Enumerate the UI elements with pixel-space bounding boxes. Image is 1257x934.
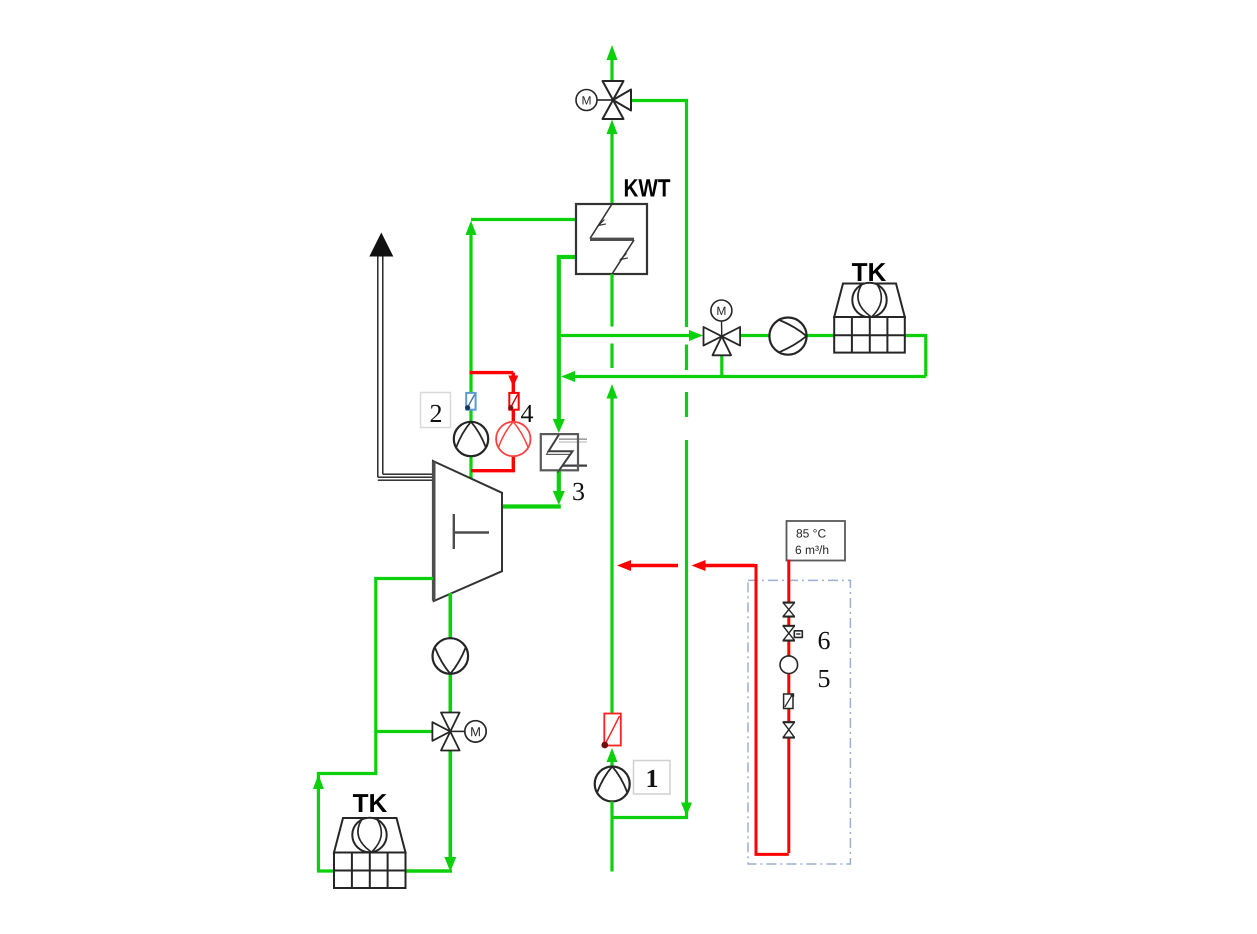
arrow up on TK-left riser [313, 775, 324, 790]
strainer on red line [784, 693, 795, 708]
wire: right valve to pump to tower TK right [739, 334, 770, 337]
cooling tower TK right [834, 283, 905, 353]
wire: green supply up from top valve with arrow [607, 45, 618, 82]
wire: green arrow up into sensor from pump 1 [607, 748, 618, 766]
svg-text:85 °C: 85 °C [796, 527, 826, 541]
shut-off valve top (red line) [783, 603, 795, 617]
shut-off valve bottom (red line) [783, 722, 795, 738]
svg-text:1: 1 [645, 764, 658, 793]
red return crossing arrows to x=612 [617, 560, 755, 571]
cooling tower TK left [334, 818, 406, 888]
pump right TK circuit [769, 318, 806, 355]
wire: pump to valve [448, 673, 452, 714]
motorized 3-way valve right (at 721.8,336.3) [704, 327, 741, 355]
wire: green turbine right outlet to junction [502, 504, 561, 508]
wire: green into left M-valve from left riser [376, 730, 434, 733]
wire: green into KWT left top port [471, 218, 576, 221]
motorized 3-way valve left (at 450.3,731.5) [432, 713, 459, 751]
box 85C 6m3/h [787, 521, 846, 561]
wire: green from turbine bottom to pump [448, 593, 452, 640]
wire: thick green KWT left bottom port down to HX 3 [553, 257, 576, 433]
svg-text:M: M [716, 304, 726, 318]
svg-text:2: 2 [429, 399, 442, 428]
steam turbine [433, 461, 502, 601]
motor M of right valve [711, 300, 732, 336]
wire: green supply to right M-valve, arrow right [559, 330, 703, 341]
wire: tower right out, down, return [905, 336, 926, 377]
red return run up left side of enclosure [753, 566, 789, 855]
wire: valve down to TK left tower with down arrow [406, 749, 457, 872]
label box 1 [634, 761, 671, 795]
label box 2 [421, 393, 451, 429]
red bypass line over pump 4 [470, 373, 519, 471]
control valve 6 with actuator [783, 626, 803, 641]
wire: green below pump 1 to line end [610, 802, 613, 872]
motorized 3-way valve top (at 613,100) [603, 81, 632, 119]
pump 2 [454, 422, 488, 456]
KWT heat exchanger box [576, 204, 647, 274]
wire: green vertical x=471 with up arrow, down to red tee [466, 221, 477, 394]
meter 5 circle [780, 656, 798, 674]
motor M of left valve [450, 721, 486, 742]
svg-text:6 m³/h: 6 m³/h [795, 543, 829, 557]
pump left (condensate) [433, 638, 469, 674]
svg-text:M: M [470, 724, 481, 739]
svg-text:M: M [581, 93, 591, 107]
svg-text:5: 5 [817, 664, 830, 693]
wire: green return line y=376.5 with left arrow [561, 371, 926, 382]
black exhaust stack with arrow [369, 233, 433, 481]
red feed line from 85C box down through fittings [787, 560, 790, 854]
pump 4 (red) [496, 422, 530, 456]
wire: green from HX3 bottom down to turbine outlet junction [553, 470, 565, 505]
wire: green dashed vertical x=686.5 down to bottom tee [685, 345, 688, 809]
wire: green left condensate loop vertical x=376 [318, 579, 433, 872]
svg-text:3: 3 [572, 477, 585, 506]
flow indicator blue (above pump 2) [465, 393, 476, 410]
wire: green dashed vertical x=612 (KWT to pump1) with up arrow [610, 274, 613, 713]
wire: green from KWT top up into valve bottom, arrow up [607, 120, 618, 205]
svg-text:TK: TK [353, 788, 388, 818]
motor M of top valve [576, 90, 613, 111]
dash-dot enclosure box [748, 580, 850, 864]
pump 1 [595, 767, 630, 802]
svg-text:KWT: KWT [623, 174, 670, 202]
plate heat exchanger 3 [541, 434, 587, 473]
sensor red box above pump 1 [601, 714, 620, 749]
wire: right valve bottom leg to return line [720, 352, 723, 377]
flow indicator red (above pump 4) [508, 393, 519, 410]
wire: green from top valve right port to x=686 drop [630, 101, 687, 328]
svg-text:6: 6 [817, 626, 830, 655]
wire: TK left tower inlet from riser [317, 869, 334, 872]
wire: green through flowmeter 2 down into pump 2 and turbine [469, 409, 472, 480]
